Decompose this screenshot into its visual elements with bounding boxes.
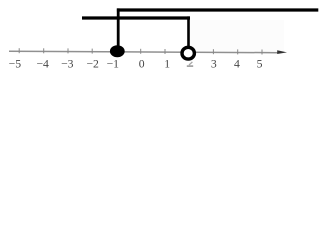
svg-text:−4: −4 — [36, 58, 49, 71]
svg-text:5: 5 — [257, 58, 263, 71]
svg-text:1: 1 — [164, 58, 170, 71]
svg-text:0: 0 — [139, 58, 145, 71]
svg-text:−3: −3 — [61, 58, 74, 71]
svg-text:−5: −5 — [9, 58, 22, 71]
svg-text:−2: −2 — [86, 58, 99, 71]
svg-text:−1: −1 — [107, 58, 120, 71]
svg-text:4: 4 — [234, 58, 240, 71]
svg-text:3: 3 — [211, 58, 217, 71]
